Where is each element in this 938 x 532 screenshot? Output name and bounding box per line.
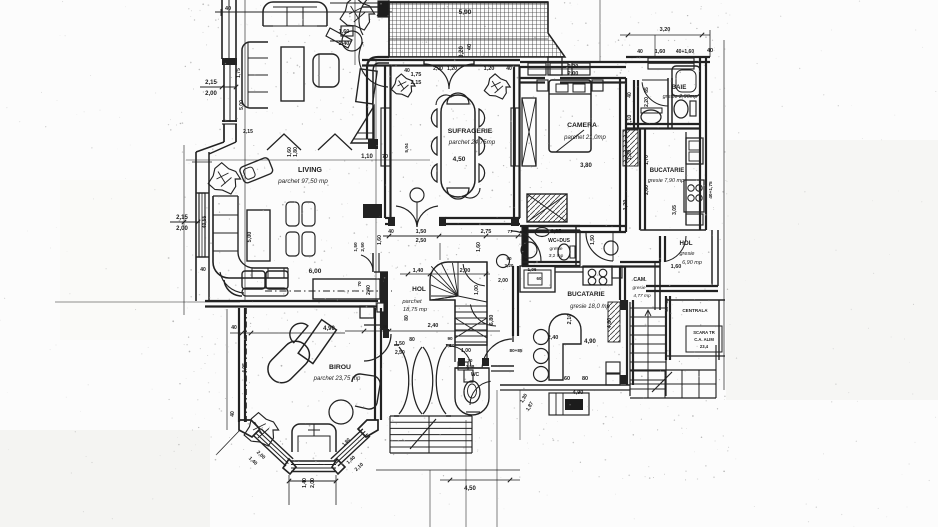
svg-text:2,50: 2,50: [360, 242, 366, 252]
svg-text:2,60: 2,60: [644, 185, 650, 195]
svg-text:4,77 mp: 4,77 mp: [633, 293, 651, 299]
svg-text:1,60: 1,60: [671, 264, 682, 270]
svg-text:CAMERA: CAMERA: [567, 122, 597, 129]
svg-text:BAIE: BAIE: [672, 84, 687, 91]
svg-text:1,40: 1,40: [302, 478, 308, 488]
svg-text:1,60: 1,60: [655, 49, 666, 55]
svg-text:5,04: 5,04: [404, 143, 410, 153]
svg-text:BUCATARIE: BUCATARIE: [567, 291, 605, 298]
svg-text:WC+DUS: WC+DUS: [548, 238, 570, 244]
svg-text:2,20: 2,20: [568, 64, 579, 70]
svg-text:1,50: 1,50: [395, 341, 405, 347]
svg-text:90: 90: [447, 336, 453, 341]
svg-text:40: 40: [404, 68, 410, 74]
svg-text:5,00: 5,00: [239, 100, 245, 110]
svg-text:1,00: 1,00: [474, 285, 480, 295]
svg-text:80: 80: [404, 315, 410, 321]
svg-text:2,10: 2,10: [567, 314, 573, 325]
svg-text:1,70: 1,70: [644, 155, 650, 165]
svg-text:7,98: 7,98: [466, 364, 475, 369]
svg-text:2,00: 2,00: [176, 226, 188, 232]
svg-text:85: 85: [644, 87, 650, 93]
svg-text:1,20: 1,20: [623, 200, 629, 211]
svg-text:40,55: 40,55: [202, 216, 208, 229]
svg-text:2,75: 2,75: [481, 229, 492, 235]
svg-text:1,20: 1,20: [447, 66, 457, 72]
svg-text:2,15: 2,15: [411, 80, 422, 86]
svg-text:4,90: 4,90: [584, 339, 596, 345]
svg-text:BIROU: BIROU: [329, 364, 351, 371]
svg-text:LIVING: LIVING: [298, 165, 322, 174]
svg-text:1,75: 1,75: [236, 68, 242, 78]
svg-text:40: 40: [506, 66, 512, 72]
svg-text:1,20: 1,20: [484, 66, 495, 72]
svg-text:1,80: 1,80: [293, 147, 299, 157]
svg-text:SUFRAGERIE: SUFRAGERIE: [448, 128, 493, 135]
svg-text:2,15: 2,15: [243, 129, 253, 135]
svg-text:parchet: parchet: [401, 299, 422, 305]
svg-text:1,50: 1,50: [590, 235, 596, 245]
svg-text:4,90: 4,90: [323, 326, 335, 332]
svg-text:3,80: 3,80: [580, 163, 592, 169]
svg-text:parchet 23,75 mp: parchet 23,75 mp: [313, 376, 361, 382]
svg-text:5,90: 5,90: [459, 9, 472, 16]
svg-text:70: 70: [382, 154, 388, 160]
svg-text:40: 40: [230, 411, 236, 417]
svg-text:BUCATARIE: BUCATARIE: [650, 168, 684, 174]
svg-text:CENTRALA: CENTRALA: [682, 308, 708, 313]
svg-text:70: 70: [357, 281, 363, 287]
svg-text:parchet 24,75mp: parchet 24,75mp: [448, 139, 496, 146]
svg-text:40: 40: [231, 325, 237, 331]
svg-text:2,20: 2,20: [505, 263, 514, 268]
svg-text:2,20: 2,20: [644, 97, 650, 107]
svg-text:2,40: 2,40: [428, 323, 439, 329]
svg-text:1,06: 1,06: [528, 267, 537, 272]
svg-text:30: 30: [382, 324, 388, 329]
svg-text:HOL: HOL: [679, 240, 692, 247]
svg-text:40+1,75: 40+1,75: [708, 181, 714, 199]
svg-text:40: 40: [225, 6, 231, 12]
svg-text:5,00: 5,00: [247, 232, 253, 243]
svg-text:3,2 mp: 3,2 mp: [549, 253, 564, 259]
svg-text:2,00: 2,00: [310, 478, 316, 488]
svg-text:CAM.: CAM.: [633, 277, 647, 283]
svg-text:WC: WC: [471, 372, 480, 378]
svg-text:60: 60: [564, 376, 570, 382]
svg-text:HOL: HOL: [412, 286, 426, 293]
svg-text:parchet 97,50 mp: parchet 97,50 mp: [277, 178, 328, 185]
svg-text:2,15: 2,15: [176, 215, 188, 221]
svg-text:4,90: 4,90: [573, 390, 584, 396]
svg-text:2,40: 2,40: [366, 285, 372, 295]
svg-text:gresie 2,90mp: gresie 2,90mp: [663, 94, 698, 100]
svg-text:2,50: 2,50: [416, 238, 427, 244]
svg-text:SCARA TR: SCARA TR: [693, 330, 714, 335]
svg-text:1,60: 1,60: [377, 235, 383, 245]
svg-text:40: 40: [467, 44, 473, 50]
svg-text:6,80: 6,80: [489, 315, 495, 326]
svg-text:1,10: 1,10: [361, 154, 373, 160]
svg-text:1,50: 1,50: [416, 229, 427, 235]
svg-text:2,00: 2,00: [498, 278, 508, 284]
svg-text:70: 70: [468, 358, 473, 363]
svg-text:3,05: 3,05: [672, 205, 678, 215]
svg-text:80: 80: [582, 376, 588, 382]
svg-text:2,00: 2,00: [568, 71, 579, 77]
svg-text:2,50: 2,50: [395, 350, 405, 356]
svg-text:1,50: 1,50: [353, 242, 359, 252]
svg-text:23,4: 23,4: [700, 344, 709, 349]
svg-text:2,00: 2,00: [433, 66, 443, 72]
svg-text:1,60: 1,60: [287, 147, 293, 157]
svg-text:40: 40: [627, 92, 633, 98]
svg-text:gresie 18,0 mp: gresie 18,0 mp: [570, 304, 610, 310]
svg-text:gresie 7,90 mp: gresie 7,90 mp: [648, 178, 684, 184]
svg-text:C.A. ALIM: C.A. ALIM: [694, 337, 714, 342]
svg-text:80: 80: [409, 337, 415, 343]
svg-text:60: 60: [537, 276, 542, 281]
svg-text:6,00: 6,00: [309, 268, 322, 275]
svg-text:2,15: 2,15: [205, 80, 217, 86]
svg-text:40: 40: [388, 229, 394, 235]
svg-text:1,20: 1,20: [627, 150, 633, 161]
svg-text:2,00: 2,00: [205, 91, 217, 97]
svg-text:6,90 mp: 6,90 mp: [682, 260, 702, 266]
svg-text:40: 40: [637, 49, 643, 55]
svg-text:18,75 mp: 18,75 mp: [403, 307, 428, 313]
svg-text:2,40: 2,40: [548, 335, 559, 341]
svg-text:4,50: 4,50: [453, 156, 466, 163]
svg-text:parchet 21,0mp: parchet 21,0mp: [563, 135, 606, 141]
svg-text:4,05: 4,05: [242, 363, 248, 373]
svg-text:40: 40: [200, 267, 206, 273]
svg-text:90: 90: [506, 256, 512, 261]
svg-text:1,85: 1,85: [551, 229, 562, 235]
svg-text:4,50: 4,50: [464, 486, 476, 492]
svg-text:40+1,60: 40+1,60: [676, 49, 694, 55]
svg-text:gresie: gresie: [632, 285, 645, 291]
svg-text:gresie: gresie: [680, 251, 695, 257]
svg-text:1,60: 1,60: [476, 242, 482, 252]
